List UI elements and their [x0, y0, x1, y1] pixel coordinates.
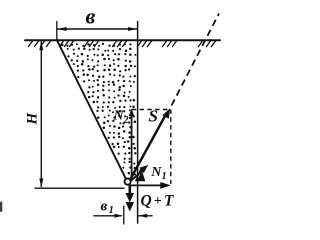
arrowhead horizontal component — [160, 182, 171, 189]
wedge right vertical edge / extension line — [137, 22, 139, 224]
force parallelogram dashed sides — [132, 110, 171, 185]
arrowhead S — [162, 108, 170, 119]
arrowhead dimension в right — [128, 27, 137, 31]
b1 left extension line — [123, 206, 125, 224]
force Q+T shaft — [129, 186, 132, 194]
vertex pivot circle — [125, 179, 131, 185]
svg-text:в: в — [101, 199, 108, 215]
ground hatching — [28, 40, 216, 46]
arrowhead dimension в left — [58, 27, 67, 31]
angle symbol filled part — [137, 173, 144, 181]
svg-text:S: S — [149, 107, 158, 126]
b1 dimension line right part — [138, 215, 152, 217]
horizontal component shaft — [131, 184, 162, 186]
angle symbol at vertex (outline) — [136, 169, 145, 180]
arrowhead b1 left — [115, 214, 124, 218]
vertex-level extension line (left) — [35, 187, 124, 189]
force S shaft — [131, 114, 167, 179]
svg-text:H: H — [25, 112, 41, 126]
dashed slip line extension — [172, 14, 220, 106]
b1 dimension line left part — [94, 215, 121, 217]
scan artifact left edge — [0, 202, 2, 213]
svg-text:1: 1 — [162, 171, 167, 182]
svg-text:+: + — [154, 194, 162, 209]
svg-text:в: в — [86, 4, 96, 29]
svg-text:T: T — [164, 193, 174, 210]
dimension line в — [57, 28, 138, 30]
arrowhead N2 — [129, 109, 134, 117]
wedge left slant edge — [57, 40, 126, 178]
arrowhead b1 right — [139, 214, 148, 218]
svg-text:1: 1 — [109, 205, 114, 216]
arrowhead H top — [39, 41, 43, 50]
ground surface line — [25, 39, 220, 41]
svg-text:2: 2 — [123, 115, 129, 126]
svg-text:Q: Q — [141, 193, 152, 210]
force N2 shaft — [131, 113, 133, 178]
arrowhead N1 — [139, 165, 148, 173]
dimension extension line left (top) — [56, 22, 58, 42]
arrowhead Q+T tip — [126, 202, 135, 212]
svg-text:N: N — [150, 165, 162, 180]
arrowhead H bottom — [39, 178, 43, 187]
stipple dots of soil wedge — [61, 43, 136, 176]
arrowhead Q+T upper chevron — [126, 193, 135, 203]
H dimension line — [40, 42, 42, 187]
force N1 shaft — [131, 170, 144, 181]
